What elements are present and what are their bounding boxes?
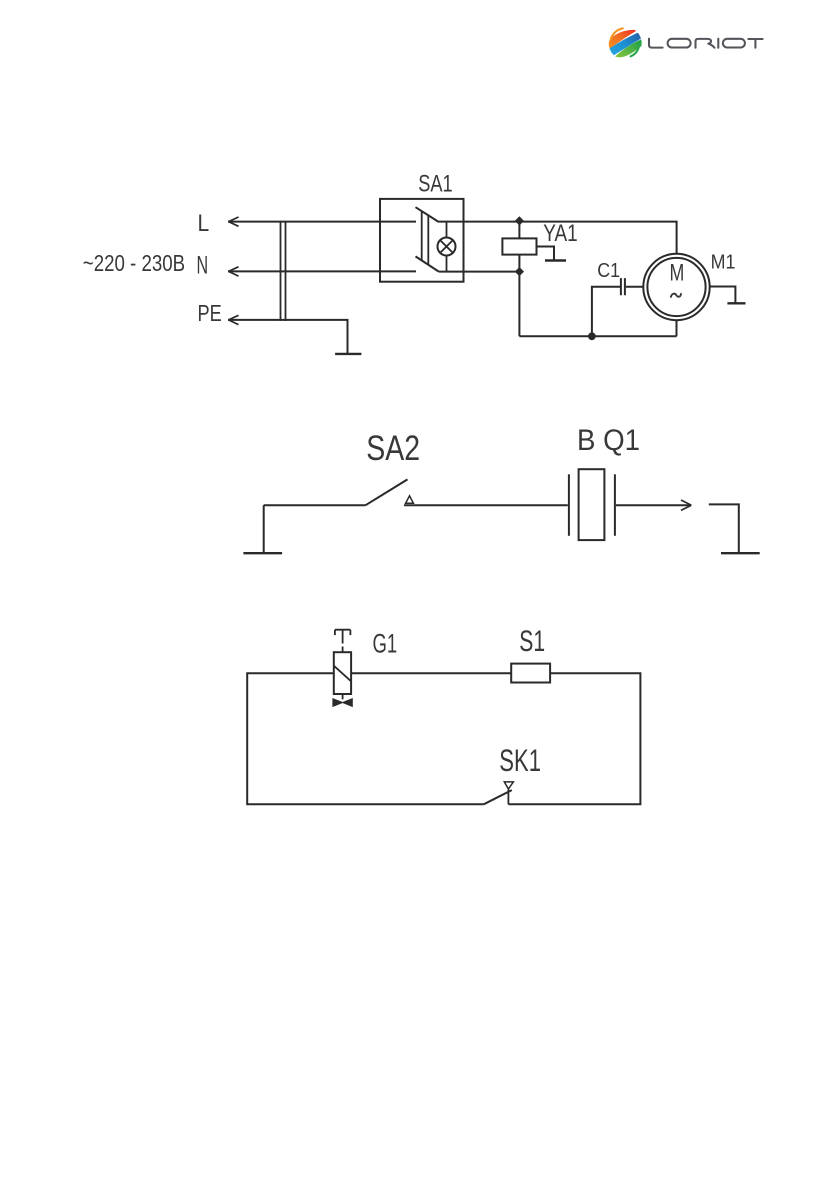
igniter G1 bbox=[334, 652, 351, 694]
svg-text:B Q1: B Q1 bbox=[577, 424, 640, 457]
relay coil YA1 bbox=[502, 238, 536, 254]
svg-text:M: M bbox=[670, 260, 685, 286]
svg-text:C1: C1 bbox=[597, 260, 620, 282]
junction dot bbox=[588, 332, 596, 340]
wire L bbox=[228, 217, 416, 226]
piezo BQ1 bbox=[569, 469, 615, 540]
label motor tilde bbox=[671, 294, 681, 297]
svg-text:G1: G1 bbox=[373, 628, 398, 658]
capacitor C1 bbox=[621, 278, 643, 295]
wire YA1 bottom lead bbox=[518, 255, 520, 337]
lamp in SA1 bbox=[438, 222, 456, 272]
svg-text:SA2: SA2 bbox=[366, 429, 420, 468]
motor M1 bbox=[643, 254, 709, 320]
G1 electrode top bbox=[335, 630, 351, 653]
wire motor bottom lead bbox=[676, 320, 678, 336]
ground left SA2 bbox=[243, 505, 282, 553]
G1 nozzle bottom bbox=[342, 694, 344, 699]
wire C1 branch bbox=[592, 287, 620, 337]
junction bottom bbox=[515, 267, 524, 276]
wire YA1 top lead bbox=[518, 222, 520, 239]
wire bottom rail bbox=[519, 335, 676, 337]
ground YA1 bbox=[537, 247, 567, 261]
svg-text:M1: M1 bbox=[711, 251, 736, 274]
wire bbox=[404, 504, 568, 506]
thermal switch SK1 bbox=[484, 782, 514, 804]
svg-text:YA1: YA1 bbox=[543, 220, 577, 247]
ground right bbox=[709, 504, 760, 553]
switch SA1 box bbox=[380, 199, 464, 282]
svg-text:~220 - 230В: ~220 - 230В bbox=[83, 250, 185, 276]
ground PE bbox=[335, 353, 361, 355]
G1 valve bowtie bbox=[333, 699, 352, 707]
logo icon bbox=[608, 27, 643, 60]
svg-text:L: L bbox=[198, 210, 210, 237]
resistor S1 bbox=[511, 664, 550, 683]
logo wordmark LORIOT bbox=[649, 39, 763, 48]
wire N bbox=[228, 267, 416, 276]
switch SA2 contact bbox=[406, 496, 414, 504]
svg-text:SA1: SA1 bbox=[418, 171, 452, 198]
wire N out bbox=[439, 271, 520, 273]
switch SA1 contacts bbox=[416, 207, 439, 271]
svg-text:PE: PE bbox=[198, 300, 222, 326]
wire L out bbox=[439, 222, 677, 254]
cable marker bbox=[281, 222, 286, 321]
junction top bbox=[515, 216, 524, 225]
wire loop bbox=[247, 673, 640, 804]
ground M1 bbox=[710, 287, 746, 304]
switch SA2 blade bbox=[366, 479, 408, 505]
svg-text:N: N bbox=[197, 252, 209, 280]
svg-text:SK1: SK1 bbox=[499, 742, 541, 778]
svg-text:S1: S1 bbox=[519, 625, 545, 658]
wire bbox=[264, 504, 366, 506]
wire arrow bbox=[616, 500, 691, 510]
wire PE bbox=[228, 315, 348, 354]
